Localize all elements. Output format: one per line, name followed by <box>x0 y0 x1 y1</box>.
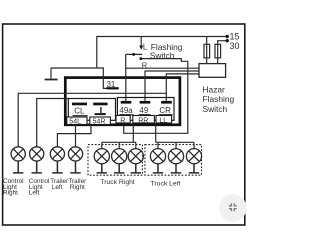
terminal bar plain <box>93 103 107 106</box>
wire trailer right to 54L <box>75 125 77 147</box>
wire R path: switch contact to relay terminal R <box>124 59 188 134</box>
ground truck right 3 <box>131 164 141 173</box>
lamp truck right 2 <box>112 149 127 164</box>
terminal link symbol <box>100 107 102 113</box>
wire fuse F1 drop <box>206 37 208 64</box>
svg-text:LL: LL <box>159 117 167 124</box>
svg-text:Switch: Switch <box>203 104 228 114</box>
wire control light right to CR <box>18 93 166 147</box>
turn signal switch S1 arm <box>140 37 142 46</box>
lamp trailer left <box>50 147 64 161</box>
node switch contact dot <box>132 53 135 56</box>
wire RR to truck right lamps <box>132 125 134 142</box>
terminal 54R box <box>90 117 111 125</box>
hazard flashing switch box S2 <box>199 64 226 78</box>
wire 30 to fuse F2 <box>218 41 227 64</box>
lamp control light left <box>30 147 44 161</box>
wire truck right bus <box>102 141 136 143</box>
wire ground to terminal 31 <box>51 68 106 88</box>
svg-text:Left: Left <box>29 190 40 197</box>
svg-text:R: R <box>120 117 125 124</box>
truck right dashed group box <box>88 145 142 176</box>
lamp truck left 3 <box>186 149 201 164</box>
svg-text:54L: 54L <box>69 119 81 126</box>
svg-text:49a: 49a <box>119 106 133 115</box>
ground trailer left <box>52 161 62 173</box>
ground truck right 1 <box>97 164 107 173</box>
lamp truck left 2 <box>168 149 183 164</box>
svg-text:RR: RR <box>138 117 148 124</box>
svg-text:54R: 54R <box>93 119 106 126</box>
svg-text:Left: Left <box>52 184 63 191</box>
ground trailer right <box>70 161 80 173</box>
svg-text:L: L <box>143 43 148 52</box>
ground symbol left <box>50 68 52 79</box>
viewer button overlay <box>219 194 247 222</box>
wire switch to 49a <box>125 54 127 68</box>
svg-text:Right: Right <box>3 190 18 197</box>
lamp truck left 1 <box>150 149 165 164</box>
node 15 junction dot <box>226 35 229 38</box>
terminal RR box <box>133 116 155 124</box>
svg-text:Truck Right: Truck Right <box>100 179 135 186</box>
truck left dashed group box <box>145 145 202 176</box>
svg-text:31: 31 <box>107 80 116 89</box>
ground truck left 2 <box>171 164 181 173</box>
terminal 54L box <box>67 117 87 125</box>
border frame of diagram <box>3 24 245 225</box>
node switch R contact dot <box>139 57 142 60</box>
fuse F1 <box>204 44 210 58</box>
ground truck right 2 <box>114 164 124 173</box>
relay inner box left <box>68 99 115 121</box>
ground truck left 1 <box>153 164 163 173</box>
terminal LL box <box>156 116 172 124</box>
wire CR to hazard switch <box>166 74 199 101</box>
wire truck left bus <box>156 141 194 143</box>
fuse F2 <box>215 44 221 58</box>
terminal 49a bar <box>121 101 132 104</box>
wire trailer left to 54R <box>57 125 91 147</box>
switch contact left segment <box>126 53 143 55</box>
terminal CL bar <box>72 103 87 106</box>
lamp trailer right <box>68 147 82 161</box>
svg-text:Right: Right <box>70 184 85 191</box>
terminal R box <box>116 116 130 124</box>
svg-text:CR: CR <box>159 106 171 115</box>
svg-text:Hazar: Hazar <box>203 85 226 95</box>
lamp control light right <box>11 147 25 161</box>
ground truck left 3 <box>189 164 199 173</box>
terminal 31 bar <box>106 87 118 89</box>
relay inner box right <box>117 98 174 121</box>
wire 49a to hazard switch <box>126 68 199 101</box>
wire 49 to hazard switch <box>145 71 199 101</box>
wire control light left to CL <box>37 99 69 147</box>
terminal 49 bar <box>140 101 151 104</box>
svg-text:Truck Left: Truck Left <box>151 180 181 187</box>
ground control light right <box>13 161 23 173</box>
wire LL to truck left lamps <box>155 125 157 142</box>
terminal CR bar <box>161 101 172 104</box>
svg-text:49: 49 <box>139 106 148 115</box>
lamp truck right 1 <box>94 149 109 164</box>
wire 15 supply to terminal 31 <box>97 37 227 68</box>
lamp truck right 3 <box>128 149 143 164</box>
relay K1 outer box <box>65 78 180 125</box>
ground control light left <box>32 161 42 173</box>
svg-text:30: 30 <box>230 41 240 51</box>
node 30 junction dot <box>226 39 229 42</box>
svg-text:CL: CL <box>74 106 85 115</box>
wire truck lamp drops <box>102 142 194 149</box>
svg-text:Flashing: Flashing <box>203 94 235 104</box>
